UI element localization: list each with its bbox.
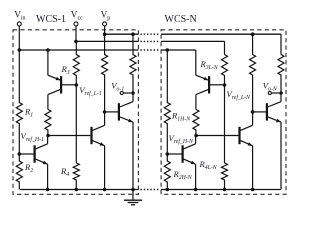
wire Q4 collector up — [104, 112, 106, 125]
node Vp rail tap — [103, 32, 107, 36]
wire Vp rail corner down — [280, 34, 282, 54]
transistor Q1 (PNP) — [60, 76, 62, 93]
wire Q3 collector up — [132, 93, 134, 102]
transistor Q4N (NPN) — [238, 127, 240, 144]
node VrefL-N — [223, 83, 227, 87]
wire Q1 emitter feed — [47, 50, 49, 75]
wire bottom rail dotted gap — [140, 189, 160, 191]
node Q3 base / Q4 collector — [103, 110, 107, 114]
wire Vin rail dotted gap — [140, 49, 160, 51]
wire Q1 collector drop — [47, 95, 49, 110]
wire Vp rail y=34 — [105, 33, 139, 35]
transistor Q3 (NPN) — [118, 103, 120, 120]
node Q3N base / Q4N collector — [251, 110, 255, 114]
wire Vcc rail y=41 — [76, 40, 138, 42]
wire Q2N emitter down — [195, 164, 197, 189]
wire VrefL-N down to R4L-N — [224, 85, 226, 163]
node VrefL-1 — [75, 83, 79, 87]
transistor Q3N (NPN) — [266, 103, 268, 120]
transistor Q2N (NPN) — [182, 145, 184, 162]
node Q4 emitter — [103, 188, 107, 192]
wire Vin rail in WCS-N — [161, 49, 196, 51]
svg-text:WCS-N: WCS-N — [165, 14, 197, 25]
wire bottom rail WCS-N — [161, 189, 281, 191]
wire Q4 emitter down — [104, 146, 106, 190]
wire Q1N emitter feed — [195, 50, 197, 75]
node rail tap Q1 emitter — [46, 48, 50, 52]
node R4L-N bottom — [223, 188, 227, 192]
wire VrefL-1 down to R4 — [75, 85, 77, 163]
resistor R3L-N — [222, 55, 228, 86]
node Vp rail tap (WCS-N) — [251, 32, 255, 36]
resistor Q3 base feed — [102, 34, 108, 112]
resistor Q3N base feed — [250, 34, 256, 112]
terminal Vo-1 — [120, 91, 123, 94]
wire Q2 emitter down — [47, 164, 49, 189]
wire Q3N collector up — [280, 93, 282, 102]
resistor R4L-N — [222, 163, 228, 190]
node Vp rail tap 2 — [131, 32, 135, 36]
transistor Q2 (NPN) — [33, 145, 35, 162]
node Q2N emitter — [194, 188, 198, 192]
svg-text:WCS-1: WCS-1 — [36, 14, 66, 25]
node Vo-N — [279, 91, 283, 95]
terminal Vin — [17, 22, 21, 26]
wire Q3 emitter down — [132, 122, 134, 189]
resistor Q1N collector load — [193, 109, 199, 135]
wire Q4N emitter down — [252, 146, 254, 190]
resistor R3 — [73, 41, 79, 85]
node R4 bottom — [75, 188, 79, 192]
terminal Vcc — [74, 22, 78, 26]
wire VrefH-1 line to Q4 base — [48, 135, 90, 137]
transistor Q4 (NPN) — [90, 127, 92, 144]
node Vin rail tap — [18, 48, 22, 52]
ground — [132, 190, 134, 201]
node R2H-N bottom — [166, 188, 170, 192]
wire bottom rail WCS-1 — [20, 189, 138, 191]
node VrefH-N — [194, 134, 198, 138]
wire Vp rail dotted gap — [140, 33, 160, 35]
wire Vcc rail dotted gap — [140, 40, 160, 42]
wire Q4N collector up — [252, 112, 254, 125]
wire Q2N collector up — [195, 136, 197, 144]
wire Vcc rail corner down to R3L-N — [224, 41, 226, 54]
node base Q2 divider — [18, 152, 22, 156]
resistor Vo-N load — [278, 55, 284, 94]
node VrefH-1 — [46, 134, 50, 138]
wire Vp rail in WCS-N — [161, 33, 281, 35]
wire Q1N collector drop — [195, 95, 197, 110]
terminal Vo-N — [268, 91, 271, 94]
wire Vin rail y=50 — [19, 49, 138, 51]
terminal Vp — [103, 22, 107, 26]
transistor Q1N (PNP) — [208, 76, 210, 93]
node Vcc rail tap — [74, 40, 78, 44]
resistor R2H-N — [164, 154, 170, 190]
resistor R1 — [16, 50, 22, 154]
node Q3 emitter / ground tap — [131, 188, 135, 192]
node Q4N emitter — [251, 188, 255, 192]
WCS-N dashed enclosure box — [161, 30, 286, 195]
node Vin rail tap (WCS-N) — [166, 48, 170, 52]
wire VrefH-N line to Q4N base — [196, 135, 238, 137]
resistor R1H-N — [164, 50, 170, 154]
resistor R4 — [73, 163, 79, 190]
node Q2 emitter — [46, 188, 50, 192]
wire Vcc rail in WCS-N — [161, 40, 224, 42]
resistor R2 — [16, 154, 22, 190]
node base Q2N divider — [166, 152, 170, 156]
resistor Q1 collector load — [45, 109, 51, 135]
node Vo-1 — [131, 91, 135, 95]
resistor Vo-1 load — [130, 34, 136, 93]
WCS-1 dashed enclosure box — [13, 30, 138, 195]
wire Q3N emitter down — [280, 122, 282, 189]
wire Q2 collector up — [47, 136, 49, 144]
